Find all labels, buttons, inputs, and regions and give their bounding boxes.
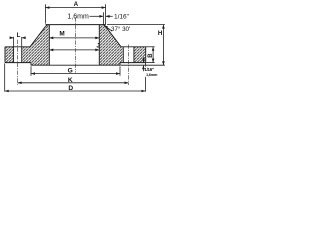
right bolt hole walls	[122, 47, 124, 63]
dimension A extension lines	[44, 4, 46, 23]
left weld bevel 37.5deg	[46, 25, 48, 27]
dimension B line	[152, 47, 154, 63]
svg-text:M: M	[59, 30, 64, 37]
dimension K line	[18, 82, 129, 84]
svg-text:B: B	[148, 53, 154, 58]
flange body left section (hatched cut)	[5, 25, 49, 66]
ring outer edge left	[4, 47, 6, 63]
dimension G line	[31, 73, 120, 75]
svg-text:1/16": 1/16"	[114, 13, 130, 20]
ring bottom edge left	[5, 62, 31, 64]
dimension J line	[49, 49, 99, 51]
svg-text:H: H	[158, 30, 163, 37]
dimension L extension lines	[13, 37, 15, 47]
weld land arrow right	[106, 15, 113, 17]
svg-text:D: D	[68, 85, 73, 92]
ring outer edge right	[145, 47, 147, 63]
dimension H extension lines	[107, 24, 165, 26]
left hub taper	[30, 26, 46, 46]
flange axis centerline	[74, 17, 76, 72]
dimension D extension lines	[4, 63, 6, 91]
right weld bevel 37.5deg	[103, 25, 105, 27]
left bolt hole walls	[13, 47, 15, 63]
svg-text:37° 30': 37° 30'	[111, 26, 130, 33]
bevel angle leader	[104, 26, 112, 32]
raised face edge right	[119, 63, 121, 66]
dimension L line and arrows	[11, 37, 14, 39]
dimension B extension lines	[146, 46, 155, 48]
svg-text:K: K	[68, 77, 73, 84]
dimension H line	[162, 25, 164, 66]
raised face edge left	[30, 63, 32, 66]
svg-text:G: G	[68, 68, 73, 75]
right hub taper	[106, 26, 121, 46]
flange body right section (hatched cut)	[99, 25, 145, 66]
left bolt hole centerline	[17, 40, 19, 85]
dimension A line	[45, 7, 105, 9]
ring top edge left	[5, 46, 31, 48]
right bolt hole centerline	[128, 45, 130, 86]
dimension D line	[5, 90, 146, 92]
dimension M line	[49, 37, 99, 39]
raised face height arrows	[142, 57, 144, 62]
svg-text:A: A	[74, 1, 79, 8]
ring bottom edge right	[120, 62, 146, 64]
svg-text:1,6mm: 1,6mm	[67, 13, 89, 20]
raised face bottom edge (full width)	[31, 64, 120, 66]
ring top edge right	[121, 46, 146, 48]
weld land arrow left	[90, 15, 104, 17]
weld end face edge (full width)	[46, 24, 106, 26]
svg-text:J: J	[96, 43, 100, 50]
svg-text:1,6mm: 1,6mm	[146, 72, 158, 77]
weld land extension line	[102, 12, 104, 24]
dimension G extension lines	[30, 66, 32, 76]
svg-text:L: L	[17, 33, 21, 39]
